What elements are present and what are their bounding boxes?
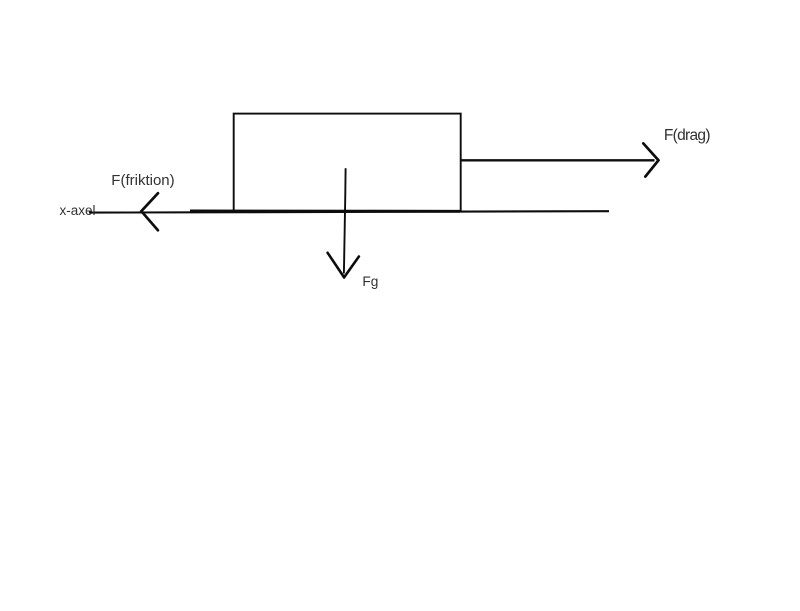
- svg-text:Fg: Fg: [362, 274, 378, 289]
- svg-text:F(friktion): F(friktion): [111, 172, 174, 189]
- svg-text:F(drag): F(drag): [664, 127, 710, 144]
- svg-text:x-axel: x-axel: [60, 203, 96, 218]
